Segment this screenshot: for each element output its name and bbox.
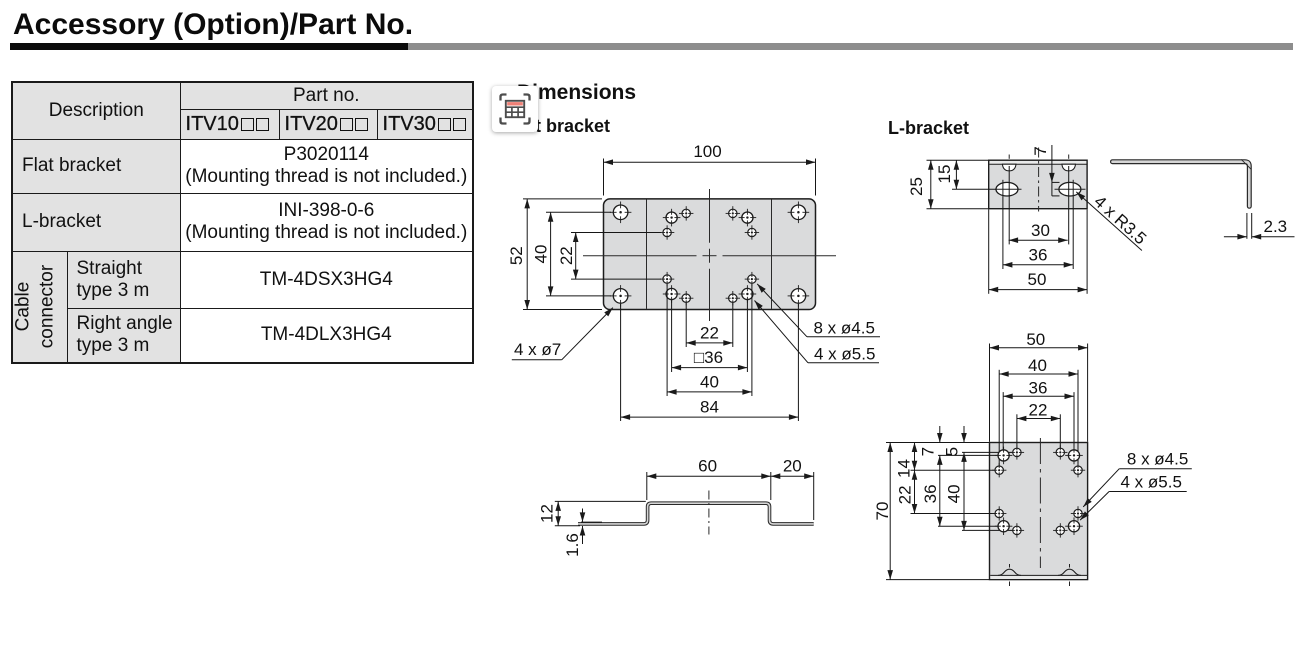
svg-text:8 x ø4.5: 8 x ø4.5 [1127,450,1188,469]
svg-text:22: 22 [1029,401,1048,420]
svg-text:84: 84 [700,398,719,417]
svg-text:12: 12 [538,504,557,523]
svg-text:36: 36 [1029,245,1048,264]
svg-text:4 x ø7: 4 x ø7 [514,340,561,359]
svg-text:15: 15 [935,165,954,184]
svg-text:2.3: 2.3 [1264,217,1288,236]
svg-text:40: 40 [700,372,719,391]
svg-text:50: 50 [1028,270,1047,289]
svg-text:8 x ø4.5: 8 x ø4.5 [814,318,875,337]
svg-text:22: 22 [557,246,576,265]
svg-text:4 x R3.5: 4 x R3.5 [1090,192,1150,248]
svg-text:40: 40 [945,484,964,503]
svg-text:36: 36 [921,484,940,503]
svg-text:60: 60 [698,456,717,475]
svg-text:7: 7 [919,447,938,456]
svg-text:40: 40 [532,245,551,264]
svg-text:7: 7 [1031,146,1050,155]
svg-text:50: 50 [1026,330,1045,349]
svg-text:100: 100 [693,142,721,161]
svg-text:70: 70 [873,502,892,521]
svg-text:52: 52 [507,246,526,265]
svg-text:1.6: 1.6 [563,533,582,557]
svg-text:□36: □36 [694,348,723,367]
svg-text:30: 30 [1031,221,1050,240]
svg-text:36: 36 [1029,379,1048,398]
svg-text:14: 14 [895,459,914,478]
svg-text:4 x ø5.5: 4 x ø5.5 [1121,473,1182,492]
svg-text:40: 40 [1028,356,1047,375]
svg-text:25: 25 [907,177,926,196]
svg-text:20: 20 [783,456,802,475]
svg-text:22: 22 [700,323,719,342]
svg-text:5: 5 [943,447,962,456]
svg-text:22: 22 [896,485,915,504]
svg-text:4 x ø5.5: 4 x ø5.5 [814,344,875,363]
